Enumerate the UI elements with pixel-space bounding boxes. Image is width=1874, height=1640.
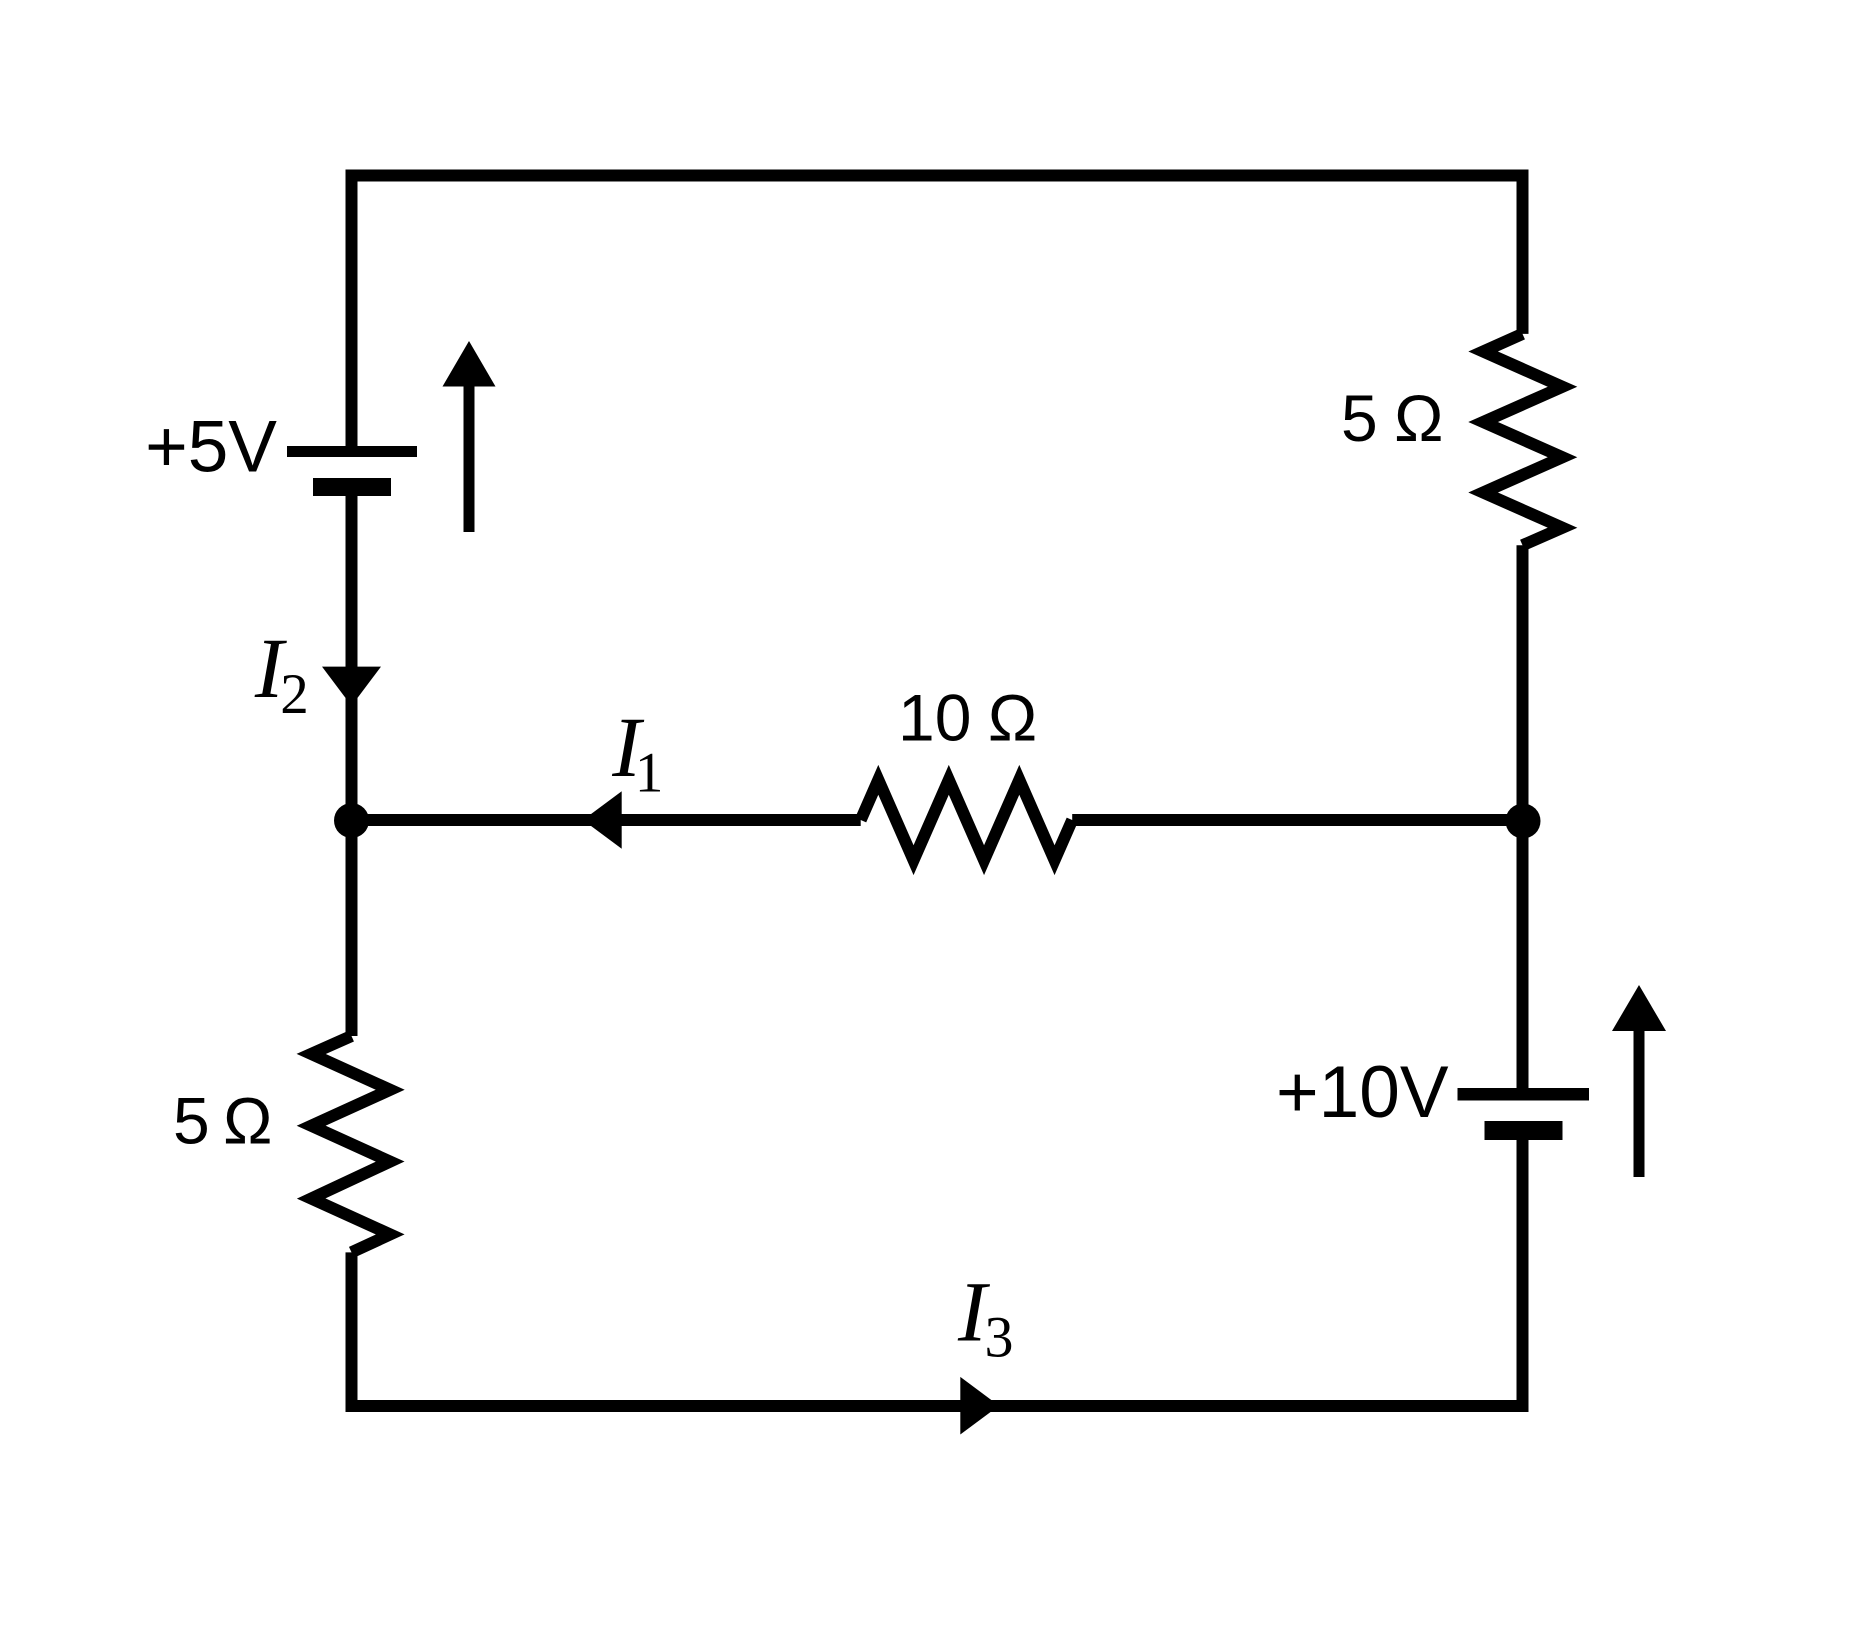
battery V2 +10V short plate <box>1485 1121 1563 1140</box>
wire: left branch from +5V to left node <box>346 496 358 1036</box>
svg-text:+10V: +10V <box>1276 1052 1449 1133</box>
arrowhead I3 pointing right on bottom rail <box>960 1377 999 1435</box>
battery V1 +5V short plate <box>313 478 391 496</box>
arrow: current direction up beside +10V source <box>1634 1031 1645 1177</box>
svg-text:Ω: Ω <box>988 680 1037 754</box>
wire: top rail with left and right drops <box>352 176 1523 447</box>
svg-text:+5V: +5V <box>145 407 277 488</box>
svg-text:1: 1 <box>635 742 664 805</box>
svg-text:5: 5 <box>173 1084 210 1158</box>
svg-text:Ω: Ω <box>1394 381 1443 455</box>
svg-text:2: 2 <box>280 663 309 726</box>
arrowhead I1 pointing left on middle wire <box>583 791 622 849</box>
node A (left junction) <box>334 803 369 838</box>
battery V2 +10V long plate <box>1458 1088 1590 1101</box>
resistor R1 10 ohm (middle horizontal zigzag) <box>861 780 1072 860</box>
battery V1 +5V long plate <box>287 446 417 457</box>
wire: right branch resistor to +10V battery <box>1517 545 1529 1088</box>
arrowhead I2 downward on left branch <box>322 667 381 706</box>
resistor R2 5 ohm (top right vertical zigzag) <box>1483 334 1562 545</box>
svg-text:3: 3 <box>985 1305 1014 1370</box>
wire: middle right segment <box>1072 814 1522 826</box>
svg-text:10: 10 <box>898 680 971 754</box>
resistor R3 5 ohm (bottom left vertical zigzag) <box>311 1036 390 1252</box>
node B (right junction) <box>1506 804 1541 839</box>
wire: middle left segment with I1 <box>352 814 861 826</box>
svg-text:Ω: Ω <box>223 1084 272 1158</box>
wire: right branch battery to bottom rail, bottom rail, and left rise <box>352 1140 1523 1406</box>
svg-text:5: 5 <box>1341 381 1378 455</box>
arrow: current direction up beside +5V source <box>464 387 475 533</box>
